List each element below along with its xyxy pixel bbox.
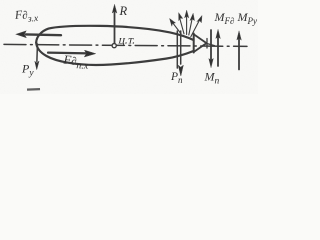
force arrow F_dz.x (drag, pointing left) (26, 33, 61, 36)
hull bottom contour (36, 43, 193, 66)
force arrow R (lift, up from c.g.) (114, 12, 116, 43)
moment arrow M_Fd (up) (217, 36, 219, 67)
fan arrow 2 (180, 18, 184, 34)
stray mark bottom-left (27, 88, 40, 91)
axis dash-dot centerline (4, 44, 247, 46)
wire: small bar at cone apex (206, 39, 208, 49)
fan arrow 4 (189, 19, 192, 35)
moment arrow M_Py (up) (238, 37, 240, 70)
tail cone (194, 34, 207, 52)
fan arrow 3 (vertical) (186, 16, 188, 35)
hull top contour (36, 26, 193, 43)
force arrow P_p (down at tail) (180, 31, 182, 64)
tail cone base (193, 34, 195, 53)
fan arrow 1 (tail pressure, up-left) (173, 23, 182, 34)
force arrow P_y (down at nose) (36, 44, 39, 62)
force arrow F_dp.x (pointing right, below axis) (48, 51, 88, 54)
label F_dp.x (62, 53, 89, 72)
fan arrow 5 (up-right) (191, 20, 200, 37)
label F_dz.x (13, 6, 39, 25)
moment arrow M_p (down) (210, 30, 212, 62)
wire: tail vertical line (176, 31, 178, 68)
node c.g. circle (112, 44, 116, 48)
paper texture (0, 0, 258, 94)
wire: axis stub after cone (206, 43, 214, 45)
